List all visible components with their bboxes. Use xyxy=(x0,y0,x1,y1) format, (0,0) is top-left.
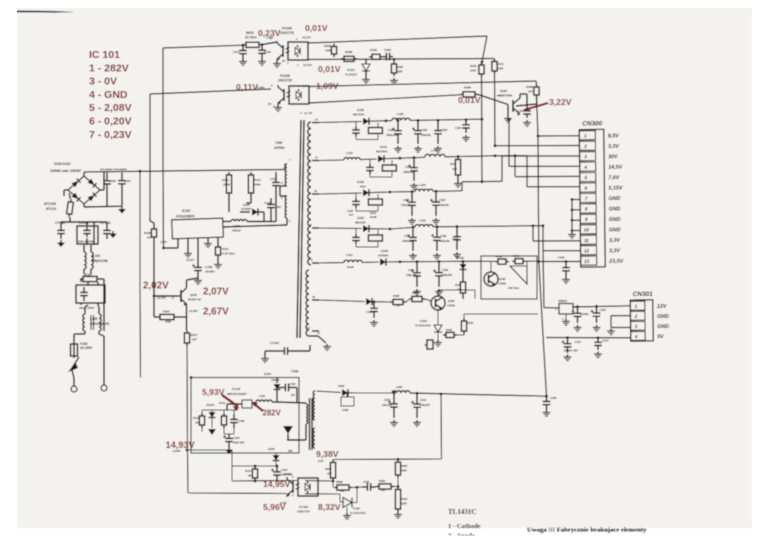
jumper JP xyxy=(427,340,433,349)
svg-text:100uH: 100uH xyxy=(232,229,242,233)
cap C105 xyxy=(233,410,235,414)
svg-text:C304: C304 xyxy=(455,126,462,130)
svg-text:12V: 12V xyxy=(657,304,667,310)
fuse F100 xyxy=(73,340,75,344)
inductor L310 xyxy=(344,158,360,160)
svg-text:MA704A: MA704A xyxy=(376,150,387,154)
diode D360 xyxy=(366,298,372,305)
cap C101 xyxy=(121,173,123,181)
svg-text:115F: 115F xyxy=(470,69,477,73)
transformer T300 secondary winding lower xyxy=(306,270,309,336)
svg-text:C313: C313 xyxy=(602,339,609,343)
svg-text:C105: C105 xyxy=(238,419,245,423)
svg-text:4: 4 xyxy=(583,165,587,170)
svg-text:22 Ohm: 22 Ohm xyxy=(244,36,257,40)
snubber C3x/R330 rail4 xyxy=(355,229,357,234)
svg-text:R30B: R30B xyxy=(345,50,352,54)
svg-text:2: 2 xyxy=(634,314,638,319)
resistor R340 xyxy=(512,260,515,262)
svg-text:0,01V: 0,01V xyxy=(318,64,341,74)
svg-text:L310: L310 xyxy=(346,151,353,155)
svg-text:R303: R303 xyxy=(370,48,377,52)
cap C305b xyxy=(576,305,579,308)
svg-text:C3W: C3W xyxy=(388,128,394,132)
cap C343 xyxy=(565,260,568,263)
svg-text:L101: L101 xyxy=(93,254,100,258)
svg-text:ZD101: ZD101 xyxy=(205,403,215,407)
controller IC101 ICE3A765P2 xyxy=(172,218,224,239)
svg-text:0V: 0V xyxy=(282,59,285,63)
wire fb takeoff xyxy=(440,393,443,396)
svg-text:1000u25v: 1000u25v xyxy=(402,240,414,243)
svg-text:14,48V: 14,48V xyxy=(189,309,198,313)
svg-text:L200: L200 xyxy=(396,385,403,389)
cap C305 xyxy=(519,94,521,98)
svg-text:(M)DS108: (M)DS108 xyxy=(93,259,108,263)
snubber C330/R330 rail1 xyxy=(355,122,357,127)
wire opto PC300 left to vertical xyxy=(163,45,243,48)
svg-text:MA724A: MA724A xyxy=(353,112,364,116)
svg-text:C114: C114 xyxy=(264,201,271,205)
diode D340 xyxy=(380,258,386,265)
svg-text:0,01V: 0,01V xyxy=(458,95,481,105)
svg-text:C112: C112 xyxy=(270,177,277,181)
svg-text:C411: C411 xyxy=(233,50,240,54)
svg-text:600V3A0+PE: 600V3A0+PE xyxy=(90,322,110,326)
wire standby 12V rail xyxy=(316,391,341,393)
resistor R110 xyxy=(201,413,203,416)
svg-text:C342: C342 xyxy=(442,268,449,272)
svg-text:C101: C101 xyxy=(124,179,131,183)
resistor R114 xyxy=(254,466,256,469)
resistor R202 xyxy=(376,486,379,488)
ground ZD101 xyxy=(208,429,216,435)
svg-text:8,4V: 8,4V xyxy=(318,459,324,463)
svg-text:R311: R311 xyxy=(497,62,504,66)
resistor R50B xyxy=(334,487,337,489)
svg-text:PC200: PC200 xyxy=(280,74,290,78)
ground bridge rail xyxy=(121,207,123,210)
svg-text:R113: R113 xyxy=(254,178,261,182)
ground R111 xyxy=(217,262,219,265)
rail2 wire from tap 11 xyxy=(319,159,344,162)
svg-text:270u25v: 270u25v xyxy=(400,204,411,207)
inductor L102 xyxy=(256,400,272,402)
svg-text:11: 11 xyxy=(584,238,589,243)
cap C202 xyxy=(362,486,367,488)
wire opto PC200 left to vertical xyxy=(150,89,271,94)
opto-coupler PC100 xyxy=(292,481,294,493)
terminal plug N xyxy=(101,385,107,391)
svg-text:NTC100: NTC100 xyxy=(44,202,56,206)
transformer core xyxy=(297,120,301,338)
svg-text:R320: R320 xyxy=(370,212,377,215)
wire bridge bottom rail xyxy=(83,204,85,207)
ground IC304 xyxy=(437,340,439,343)
svg-text:R306: R306 xyxy=(464,86,471,90)
svg-text:ICE3A765P2: ICE3A765P2 xyxy=(176,215,195,219)
svg-text:C208: C208 xyxy=(342,408,349,412)
terminal plug L xyxy=(71,386,77,392)
svg-text:C302: C302 xyxy=(421,128,428,132)
inductor L341 xyxy=(344,260,362,262)
svg-text:Q100: Q100 xyxy=(190,293,197,297)
rail4 wire from tap 9 xyxy=(319,227,362,230)
ground IC101 pin xyxy=(207,241,209,244)
svg-text:3k3: 3k3 xyxy=(248,474,253,478)
svg-text:0,01V: 0,01V xyxy=(305,23,328,33)
svg-text:3,3V: 3,3V xyxy=(609,238,620,244)
wire pin11 from rail4 xyxy=(532,224,535,227)
svg-text:23,5V: 23,5V xyxy=(608,259,623,265)
transformer bottom pins to ground xyxy=(309,335,318,337)
wire pin5 from rail2 xyxy=(514,154,517,157)
svg-text:R103: R103 xyxy=(163,310,170,314)
ground C343 xyxy=(565,277,567,280)
svg-text:PC100: PC100 xyxy=(299,505,308,509)
svg-text:0,30V: 0,30V xyxy=(257,86,265,90)
svg-text:45uF 275V: 45uF 275V xyxy=(78,306,95,310)
ground CY102 xyxy=(264,356,266,359)
svg-text:L102: L102 xyxy=(259,394,266,398)
wire H3 1,09V line xyxy=(309,81,536,87)
svg-text:8,5V: 8,5V xyxy=(608,133,619,139)
svg-text:TL1431C/431: TL1431C/431 xyxy=(415,324,431,328)
svg-text:C3246: C3246 xyxy=(498,282,506,286)
svg-text:R50B: R50B xyxy=(336,480,343,484)
svg-text:IC304: IC304 xyxy=(420,319,427,323)
svg-text:472: 472 xyxy=(146,236,152,240)
cap C351 xyxy=(373,300,376,303)
cap C312 xyxy=(566,336,569,339)
svg-text:T30-02: T30-02 xyxy=(271,378,280,382)
resistor R334 xyxy=(397,458,400,461)
transformer T100 primary xyxy=(306,404,308,424)
svg-text:C209: C209 xyxy=(384,399,391,402)
svg-text:R107: R107 xyxy=(191,333,198,337)
cap C103 xyxy=(276,466,278,472)
ground PC200 emitter xyxy=(277,105,279,108)
svg-text:DruM: DruM xyxy=(347,265,354,269)
cap C104 xyxy=(228,434,230,438)
svg-text:4: 4 xyxy=(270,84,273,88)
svg-text:220u25V: 220u25V xyxy=(381,404,392,407)
svg-text:0,11V: 0,11V xyxy=(236,82,258,92)
wire H1 PC300 top to R301 xyxy=(308,36,487,43)
svg-text:R202: R202 xyxy=(379,479,386,483)
svg-text:L320: L320 xyxy=(419,183,426,187)
svg-text:CNX1715: CNX1715 xyxy=(280,31,294,35)
svg-text:GND: GND xyxy=(609,206,621,212)
svg-text:DruM: DruM xyxy=(370,216,377,219)
wire bridge top to bus xyxy=(83,172,85,176)
cap C311 xyxy=(413,156,416,159)
svg-text:120u25v: 120u25v xyxy=(439,204,449,207)
svg-text:D310: D310 xyxy=(380,145,387,149)
svg-text:1000s35v: 1000s35v xyxy=(403,171,415,174)
cap C411 xyxy=(242,45,244,50)
svg-text:2,02V: 2,02V xyxy=(143,281,169,292)
rail3 wire from tap 10 xyxy=(319,193,362,194)
choke L101 xyxy=(84,252,86,269)
resistor R354 xyxy=(463,318,465,321)
svg-text:14,95V: 14,95V xyxy=(263,479,291,489)
svg-text:R312: R312 xyxy=(450,162,457,166)
svg-text:5V: 5V xyxy=(657,334,664,340)
svg-text:100k: 100k xyxy=(165,320,172,324)
svg-text:100u25V: 100u25V xyxy=(420,404,430,407)
wire 5V line xyxy=(546,337,631,339)
svg-text:BC847-40: BC847-40 xyxy=(188,298,201,302)
svg-text:ca. 0V: ca. 0V xyxy=(304,111,313,115)
resistor R353 xyxy=(409,298,412,300)
ground CN300 gnd pins xyxy=(571,232,573,235)
transformer T300 secondary winding upper xyxy=(308,122,311,265)
cap C304r xyxy=(437,119,440,122)
svg-text:R510: R510 xyxy=(325,467,332,471)
svg-text:282V: 282V xyxy=(263,409,282,418)
cap C341 xyxy=(416,260,419,263)
mains plug arrow symbol xyxy=(72,357,79,368)
svg-text:C3246: C3246 xyxy=(447,304,455,308)
svg-text:AVP8A: AVP8A xyxy=(273,146,285,150)
resistor R303 xyxy=(369,56,372,58)
cap C301 xyxy=(397,119,400,122)
svg-text:CN300: CN300 xyxy=(582,120,602,127)
svg-text:T100: T100 xyxy=(291,370,298,374)
resistor R510 xyxy=(332,460,334,463)
svg-text:2,67V: 2,67V xyxy=(203,307,229,318)
svg-text:C331: C331 xyxy=(404,234,411,238)
svg-text:L100: L100 xyxy=(90,317,97,321)
wire HV feed to standby xyxy=(139,170,142,173)
cap C10B xyxy=(197,262,199,267)
connector CN301 xyxy=(630,291,669,341)
wire rail2 extension xyxy=(494,154,497,157)
transformer T300 AVP8A primary xyxy=(284,164,286,170)
wire PC100 led cathode xyxy=(305,493,340,495)
wire pin6 from rail2 xyxy=(515,155,527,157)
svg-text:7,6V: 7,6V xyxy=(608,175,619,181)
resistor R301 xyxy=(481,62,483,65)
wire bridge left to NTC xyxy=(64,189,68,191)
svg-text:CNX1715: CNX1715 xyxy=(297,510,310,514)
svg-text:C100: C100 xyxy=(109,179,116,183)
svg-text:3,3V: 3,3V xyxy=(608,144,619,150)
svg-text:C202: C202 xyxy=(363,480,370,484)
ground IC200 xyxy=(346,513,348,516)
ground IC303 xyxy=(365,77,367,80)
svg-text:RU2: RU2 xyxy=(360,184,366,188)
ground C348 xyxy=(546,410,548,413)
svg-text:14,47V: 14,47V xyxy=(186,258,194,262)
svg-text:14,5V: 14,5V xyxy=(608,165,622,171)
wire standby fb row xyxy=(231,450,233,481)
bridge rectifier D100-D103 xyxy=(68,176,100,204)
wire rail3 riser xyxy=(461,182,463,191)
cap C322 xyxy=(435,190,438,193)
svg-text:MIP2E1ZDMY: MIP2E1ZDMY xyxy=(227,392,248,396)
svg-text:R340: R340 xyxy=(513,254,520,258)
svg-text:C102: C102 xyxy=(289,382,296,386)
svg-text:R204: R204 xyxy=(401,464,408,468)
svg-text:14,93V: 14,93V xyxy=(166,440,196,450)
wire PC100 pin3 xyxy=(188,492,287,495)
svg-text:0V: 0V xyxy=(268,102,271,106)
cap C313 xyxy=(597,336,600,339)
diode D320 xyxy=(363,189,369,196)
svg-text:230 Ohm: 230 Ohm xyxy=(507,286,520,290)
svg-text:10: 10 xyxy=(584,227,590,232)
svg-text:CNX1715: CNX1715 xyxy=(278,79,292,83)
svg-text:47K: 47K xyxy=(339,490,345,493)
wire bundle v1 down to C348 xyxy=(537,136,540,262)
svg-text:GND: GND xyxy=(608,196,620,202)
svg-text:D106: D106 xyxy=(268,447,275,451)
rail6 wire from tap 16 xyxy=(319,300,365,302)
wire R107 line down xyxy=(186,346,189,450)
Y-cap CY100 xyxy=(60,225,62,230)
svg-text:D340: D340 xyxy=(381,249,388,253)
rail5 wire from tap 8 xyxy=(319,262,344,264)
svg-text:100F: 100F xyxy=(396,70,403,74)
svg-text:L300: L300 xyxy=(397,112,404,116)
snubber C320/R320 rail3 xyxy=(355,193,357,198)
svg-text:33T: 33T xyxy=(528,90,533,94)
svg-text:240k: 240k xyxy=(253,183,261,187)
wire cap row xyxy=(60,222,62,225)
resistor R303b xyxy=(397,487,399,490)
svg-text:R112: R112 xyxy=(219,401,226,405)
X-cap box CX100 xyxy=(76,285,105,303)
svg-text:12,77V: 12,77V xyxy=(157,296,166,300)
wire bridge right up xyxy=(100,189,104,191)
wire T100 primary bottom xyxy=(305,424,307,440)
resistor R113 xyxy=(250,172,252,175)
svg-text:8,32V: 8,32V xyxy=(318,502,341,512)
svg-text:JP: JP xyxy=(424,344,427,347)
svg-text:C335: C335 xyxy=(452,237,459,241)
svg-text:TL1431C/431: TL1431C/431 xyxy=(350,511,366,515)
cap C331 xyxy=(412,226,415,229)
ground PC300 emitter xyxy=(276,61,278,64)
inductor L330 xyxy=(415,225,433,227)
svg-text:CN301: CN301 xyxy=(633,291,653,298)
svg-text:120u25v: 120u25v xyxy=(440,240,450,243)
wire pin4 from rail1 xyxy=(508,118,511,121)
wire R112/R113 bottoms xyxy=(228,196,230,212)
svg-text:10U: 10U xyxy=(452,167,457,171)
wire h181 to pin3 riser xyxy=(462,180,502,182)
svg-text:R303: R303 xyxy=(401,497,408,501)
cap C208 xyxy=(341,397,354,406)
diode D350 xyxy=(363,225,369,232)
zener ZD101 xyxy=(211,410,213,412)
wire bundle v1 to pin1 xyxy=(537,98,539,136)
wire H2 TL431 row to R311 xyxy=(308,59,494,60)
svg-text:C350: C350 xyxy=(440,234,447,238)
resistor R350 xyxy=(390,301,393,303)
svg-text:4: 4 xyxy=(634,334,638,339)
svg-text:C341: C341 xyxy=(408,268,415,272)
svg-text:Q300: Q300 xyxy=(500,89,507,93)
svg-text:3A 250V: 3A 250V xyxy=(80,346,93,350)
diode D107 xyxy=(240,211,250,213)
wire pin2 from R311 xyxy=(494,74,497,146)
cap C100 xyxy=(106,173,108,181)
cap C112 xyxy=(275,172,277,182)
svg-text:55V: 55V xyxy=(288,449,293,453)
svg-text:D200: D200 xyxy=(338,384,345,388)
svg-text:30V: 30V xyxy=(608,154,618,160)
cap C410 xyxy=(261,45,263,51)
resistor R410 xyxy=(243,44,246,46)
svg-text:UF4007: UF4007 xyxy=(241,207,252,211)
inductor L200 xyxy=(392,391,410,393)
wire Q100 collector xyxy=(186,280,188,288)
cap C335 xyxy=(456,225,459,228)
cap C321 xyxy=(411,190,414,193)
cap C304b xyxy=(595,305,598,308)
transistor Q340 xyxy=(484,272,498,286)
cap C303 xyxy=(383,56,386,58)
svg-text:6,16V: 6,16V xyxy=(280,501,287,505)
svg-text:200: 200 xyxy=(380,489,386,492)
svg-text:C304: C304 xyxy=(441,128,448,132)
ground R303b xyxy=(397,512,399,515)
ground C411 xyxy=(242,59,244,62)
wire H4 0,01V line xyxy=(309,95,460,103)
transformer T100 secondary xyxy=(313,391,315,420)
shunt IC200 TL431 xyxy=(343,498,352,508)
diode D104 xyxy=(276,378,278,384)
transistor Q100 BC847-40 xyxy=(176,295,181,297)
svg-text:L311: L311 xyxy=(431,149,438,153)
junction C348 xyxy=(545,395,548,398)
svg-text:C30: C30 xyxy=(518,109,523,113)
svg-text:78M12: 78M12 xyxy=(558,299,568,303)
svg-text:GND: GND xyxy=(657,314,669,320)
snubber C310/R310 rail2 xyxy=(369,159,371,164)
Y-cap CY102 xyxy=(265,350,281,352)
svg-text:IC200: IC200 xyxy=(353,507,360,511)
ground C410 xyxy=(261,59,263,62)
wire to C104 xyxy=(223,428,225,434)
svg-text:C312: C312 xyxy=(575,340,582,344)
resistor R103 xyxy=(157,316,160,318)
svg-text:16T: 16T xyxy=(396,304,401,308)
opto-coupler PC300 xyxy=(262,42,277,45)
svg-text:5,93V: 5,93V xyxy=(202,387,225,397)
cap C209 xyxy=(393,392,396,395)
ground C104 xyxy=(228,447,230,450)
svg-text:5 - 2,08V: 5 - 2,08V xyxy=(89,102,132,114)
svg-text:Uwaga !!! Fabrycznie brakujace: Uwaga !!! Fabrycznie brakujace elementy xyxy=(527,527,647,534)
cap C348 xyxy=(546,396,548,401)
svg-text:IC 101: IC 101 xyxy=(89,49,120,61)
resistor R107 xyxy=(186,330,188,333)
resistor R308 xyxy=(536,84,538,87)
svg-text:1N5061 oder 1N5397: 1N5061 oder 1N5397 xyxy=(50,169,81,173)
wire R301 vertical down xyxy=(481,77,484,182)
wire Q100 emitter xyxy=(186,304,188,330)
svg-text:TL1431C: TL1431C xyxy=(345,73,358,77)
svg-text:R354: R354 xyxy=(467,321,474,325)
resistor R306 xyxy=(460,93,463,95)
diode D106 xyxy=(275,454,277,456)
svg-text:240F: 240F xyxy=(400,469,407,473)
svg-text:R112: R112 xyxy=(222,178,229,182)
